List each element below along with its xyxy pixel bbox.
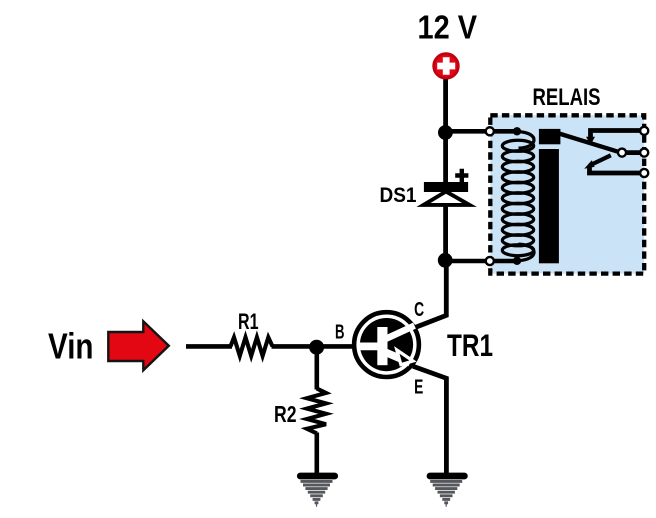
wire R2 to ground G1 [314,433,319,475]
resistor R1 [231,337,273,356]
ground G2 [430,476,464,505]
transistor TR1 [354,312,419,377]
node B junction dot [438,253,453,268]
relay common wire [623,150,643,155]
svg-text:TR1: TR1 [447,327,493,363]
relay terminal circle left top [486,127,494,135]
svg-text:E: E [414,376,423,399]
wire node A to relay coil top [445,129,488,134]
relay terminal circle right middle [640,149,648,157]
node C junction dot [309,340,324,355]
svg-text:RELAIS: RELAIS [533,84,601,111]
wire emitter net [413,366,446,474]
relay terminal circle right bottom [640,169,648,177]
ground G1 [300,476,334,505]
wire supply to node A [443,79,448,136]
diode DS1 [424,182,470,205]
relay switch bottom contact [584,155,644,173]
svg-text:R2: R2 [274,401,297,427]
relay terminal circle left bottom [486,257,494,265]
svg-text:Vin: Vin [48,326,94,367]
wire DS1 cathode lead [443,132,448,184]
relay terminal circle right top [640,127,648,135]
relay switch top contact [586,131,644,145]
svg-text:DS1: DS1 [380,184,417,207]
Vin input arrow [108,321,169,370]
relay core armature block [539,129,561,144]
supply terminal +12V [434,54,459,79]
relay coil L1 [490,127,534,265]
wire arrow to R1 [186,344,232,349]
relay pivot terminal [618,149,626,157]
node A junction dot [438,125,453,140]
svg-text:C: C [414,298,424,321]
polarity + of DS1 [455,169,468,182]
wire node B to relay coil bottom [445,259,488,264]
relay core bar [539,149,559,263]
relay box [490,115,644,273]
relay switch arm [559,134,620,153]
svg-text:12 V: 12 V [418,9,478,46]
wire node C to R2 [314,346,319,390]
svg-text:B: B [335,321,345,344]
wire R1 to node C [272,344,356,349]
wire collector net [415,258,446,328]
resistor R2 [307,389,326,434]
wire DS1 anode to node B [443,204,448,261]
svg-text:R1: R1 [238,309,259,334]
